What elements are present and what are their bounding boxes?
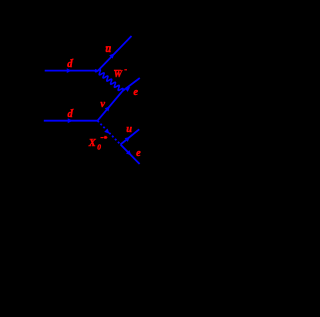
svg-text:u: u <box>126 124 132 135</box>
svg-text:X: X <box>88 138 97 149</box>
svg-text:ν: ν <box>100 99 105 110</box>
svg-text:e: e <box>133 87 138 98</box>
svg-text:0: 0 <box>97 143 101 152</box>
svg-text:d: d <box>68 109 74 120</box>
svg-text:d: d <box>67 59 73 70</box>
svg-text:W: W <box>114 70 123 80</box>
svg-text:u: u <box>105 44 111 55</box>
svg-text:e: e <box>136 148 141 159</box>
